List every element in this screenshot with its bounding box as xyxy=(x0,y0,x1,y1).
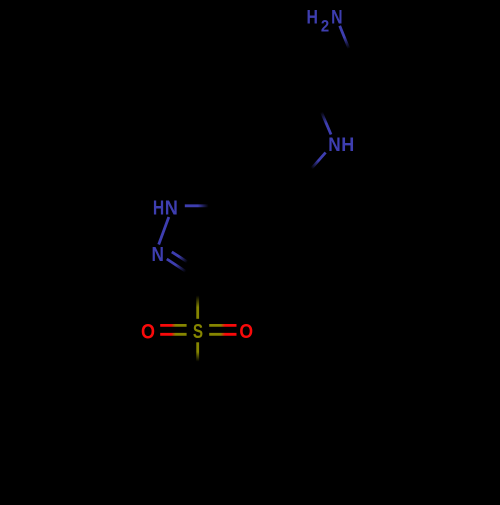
double bond N2=C3 inner line (blue half) xyxy=(172,252,188,262)
S=O right double bond lower line xyxy=(209,333,236,336)
svg-text:H: H xyxy=(307,6,318,28)
pyrazole N1 label HN : N glyph xyxy=(165,198,178,220)
S=O right double bond upper line xyxy=(209,324,236,327)
svg-text:H: H xyxy=(341,134,354,156)
bond N1-N2 (full blue) xyxy=(159,217,169,245)
svg-text:2: 2 xyxy=(321,18,330,36)
pyrazole N2 label N xyxy=(152,243,164,266)
bond S-C(phenyl) (olive half, vertical below S) xyxy=(196,342,199,361)
right oxygen label O xyxy=(239,321,253,344)
svg-text:H: H xyxy=(153,197,164,219)
pyrazole N1 label HN : H glyph xyxy=(153,197,164,219)
svg-text:O: O xyxy=(141,320,155,344)
bond CH2-NH (blue half) xyxy=(321,112,331,135)
left oxygen label O xyxy=(141,320,155,344)
svg-text:O: O xyxy=(239,321,253,344)
secondary amine label NH : H glyph xyxy=(341,134,354,156)
svg-text:N: N xyxy=(152,243,164,266)
bond C3-S (olive half, vertical above S) xyxy=(196,296,199,319)
sulfonyl S label xyxy=(193,320,203,343)
secondary amine label NH : N glyph xyxy=(328,133,340,155)
svg-text:N: N xyxy=(331,6,342,28)
amine label H2N : N glyph xyxy=(331,6,342,28)
S=O left double bond upper line xyxy=(160,324,186,327)
double bond N2=C3 main line (blue half) xyxy=(167,259,186,272)
svg-text:N: N xyxy=(328,133,340,155)
amine label H2N : H glyph xyxy=(307,6,318,28)
S=O left double bond lower line xyxy=(160,333,186,336)
svg-text:N: N xyxy=(165,198,178,220)
bond H2N-CH2 (blue half) xyxy=(340,26,349,49)
bond N1-C7a (blue half, horizontal) xyxy=(185,204,209,207)
bond NH-C(aryl) (blue half) xyxy=(312,153,326,169)
svg-text:S: S xyxy=(193,320,203,343)
amine label H2N : subscript 2 xyxy=(321,18,330,36)
